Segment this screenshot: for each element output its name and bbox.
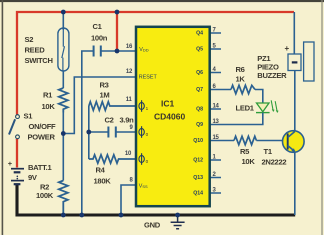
svg-text:Q10: Q10 bbox=[193, 138, 203, 144]
svg-text:9V: 9V bbox=[28, 173, 38, 182]
svg-text:10K: 10K bbox=[42, 102, 56, 111]
frame right border bbox=[321, 0, 322, 235]
wire: pin6 Q7 to R6 bbox=[211, 89, 232, 91]
wire: C1 left lead and VDD-gnd decoupling drop bbox=[82, 51, 94, 215]
IC1 CD4060 body bbox=[136, 27, 210, 206]
wire: C2 right to pin9 bbox=[116, 131, 136, 133]
svg-text:R5: R5 bbox=[240, 147, 250, 156]
piezo minus bar bbox=[292, 61, 298, 63]
T1 emitter diagonal with arrow bbox=[288, 146, 295, 152]
svg-text:R3: R3 bbox=[100, 81, 109, 90]
svg-text:1K: 1K bbox=[236, 75, 246, 84]
T1 collector diagonal bbox=[288, 132, 295, 138]
wire: emitter to ground bbox=[294, 152, 296, 216]
resistor R3 1M bbox=[89, 102, 136, 111]
svg-text:2N2222: 2N2222 bbox=[262, 158, 287, 167]
svg-text:R1: R1 bbox=[43, 91, 53, 100]
svg-text:1: 1 bbox=[146, 106, 149, 111]
svg-text:S2: S2 bbox=[25, 35, 34, 44]
battery BATT.1 plates bbox=[11, 168, 24, 170]
svg-text:Q12: Q12 bbox=[193, 158, 203, 164]
svg-text:BUZZER: BUZZER bbox=[257, 71, 287, 80]
wire: C2 left lead bbox=[89, 131, 108, 133]
svg-text:16: 16 bbox=[126, 44, 133, 50]
wire: RESET pin12 to R1/R2 node bbox=[63, 77, 136, 134]
frame left border bbox=[2, 0, 4, 235]
IC pin stubs right unconnected bbox=[211, 33, 222, 193]
T1 base bar bbox=[287, 134, 289, 150]
ground symbol bbox=[171, 215, 185, 229]
svg-text:12: 12 bbox=[126, 69, 133, 75]
svg-text:13: 13 bbox=[213, 119, 220, 125]
capacitor C1 100n plates bbox=[94, 46, 101, 57]
svg-text:IC1: IC1 bbox=[161, 99, 175, 109]
wire: R5 to T1 base bbox=[256, 140, 287, 142]
svg-text:REED: REED bbox=[25, 46, 46, 55]
svg-text:CD4060: CD4060 bbox=[154, 112, 185, 122]
svg-text:0: 0 bbox=[146, 132, 149, 137]
transistor T1 body bbox=[283, 131, 305, 153]
svg-text:RESET: RESET bbox=[139, 75, 158, 81]
wire: R3/C2/R4 node vertical bbox=[88, 106, 90, 159]
svg-text:Q8: Q8 bbox=[196, 107, 203, 113]
svg-text:C2: C2 bbox=[105, 116, 114, 125]
svg-text:0: 0 bbox=[146, 159, 149, 164]
svg-text:VDD: VDD bbox=[139, 47, 148, 53]
resistor R1 10K vertical bbox=[59, 88, 68, 113]
svg-text:100n: 100n bbox=[91, 34, 108, 43]
svg-text:VSS: VSS bbox=[139, 184, 148, 190]
svg-text:Q4: Q4 bbox=[196, 31, 203, 37]
svg-text:S1: S1 bbox=[24, 112, 34, 121]
wire: red rail gap at switch S1 bbox=[15, 115, 20, 140]
svg-text:Q7: Q7 bbox=[196, 87, 203, 93]
svg-text:15: 15 bbox=[213, 135, 220, 141]
svg-text:10K: 10K bbox=[242, 157, 256, 166]
wire: reed to R1 bbox=[62, 71, 64, 88]
svg-text:R4: R4 bbox=[96, 165, 106, 174]
svg-text:Q9: Q9 bbox=[196, 122, 203, 128]
svg-text:LED1: LED1 bbox=[236, 104, 255, 113]
wire: R6 to LED anode bbox=[255, 90, 263, 104]
wire: red positive rail top bbox=[17, 12, 294, 140]
svg-text:10: 10 bbox=[125, 151, 132, 157]
wire: red VDD drop from rail bbox=[116, 12, 118, 51]
svg-text:100K: 100K bbox=[36, 191, 54, 200]
svg-text:1M: 1M bbox=[100, 91, 110, 100]
wire: LED cathode to pin13 Q9 bbox=[211, 113, 263, 125]
junction dots bbox=[61, 10, 66, 15]
wire: piezo feed from rail bbox=[293, 12, 295, 54]
wire: R1 to node to R2 bbox=[62, 113, 64, 181]
wire: black ground bus bbox=[17, 184, 295, 216]
svg-text:R6: R6 bbox=[236, 65, 245, 74]
svg-text:+: + bbox=[285, 44, 290, 53]
LED1 light arrows bbox=[271, 100, 277, 111]
svg-text:Q6: Q6 bbox=[196, 70, 203, 76]
svg-text:180K: 180K bbox=[94, 177, 112, 186]
reed switch contacts bbox=[62, 28, 65, 71]
resistor R4 180K bbox=[89, 155, 136, 163]
svg-text:11: 11 bbox=[126, 97, 133, 103]
wire: pin15 Q10 to R5 bbox=[211, 140, 235, 142]
svg-text:C1: C1 bbox=[93, 22, 103, 31]
LED1 cathode bar bbox=[256, 112, 270, 114]
wire: piezo to T1 collector bbox=[294, 71, 296, 132]
resistor R5 10K bbox=[234, 136, 256, 144]
svg-text:+: + bbox=[8, 159, 13, 168]
wire: pin8 Vss to ground bbox=[121, 185, 136, 215]
reed switch S2 capsule bbox=[58, 28, 69, 71]
wire: red battery feed segment bbox=[16, 139, 18, 168]
switch S1 lever bbox=[9, 119, 15, 134]
resistor R6 1K bbox=[231, 85, 255, 93]
resistor R2 100K vertical bbox=[59, 181, 68, 216]
wire: C1 right to pin16 VDD bbox=[101, 50, 136, 52]
svg-text:Q5: Q5 bbox=[196, 47, 203, 53]
svg-text:3.9n: 3.9n bbox=[120, 116, 135, 125]
LED1 triangle bbox=[257, 103, 270, 112]
svg-text:Q14: Q14 bbox=[193, 191, 203, 197]
piezo disc plate bbox=[304, 42, 314, 81]
S1 terminal circles bbox=[16, 115, 20, 119]
svg-text:BATT.1: BATT.1 bbox=[28, 163, 52, 172]
piezo driver square bbox=[288, 54, 301, 71]
capacitor C2 3.9n plates bbox=[108, 127, 115, 138]
frame top border bbox=[0, 0, 324, 2]
svg-text:SWITCH: SWITCH bbox=[25, 56, 53, 65]
svg-text:ON/OFF: ON/OFF bbox=[29, 122, 57, 131]
svg-text:T1: T1 bbox=[264, 147, 273, 156]
svg-text:14: 14 bbox=[213, 104, 220, 110]
svg-text:GND: GND bbox=[144, 221, 161, 230]
svg-text:Q13: Q13 bbox=[193, 175, 203, 181]
wire: reed switch branch vertical bbox=[62, 12, 64, 30]
svg-text:POWER: POWER bbox=[28, 133, 56, 142]
